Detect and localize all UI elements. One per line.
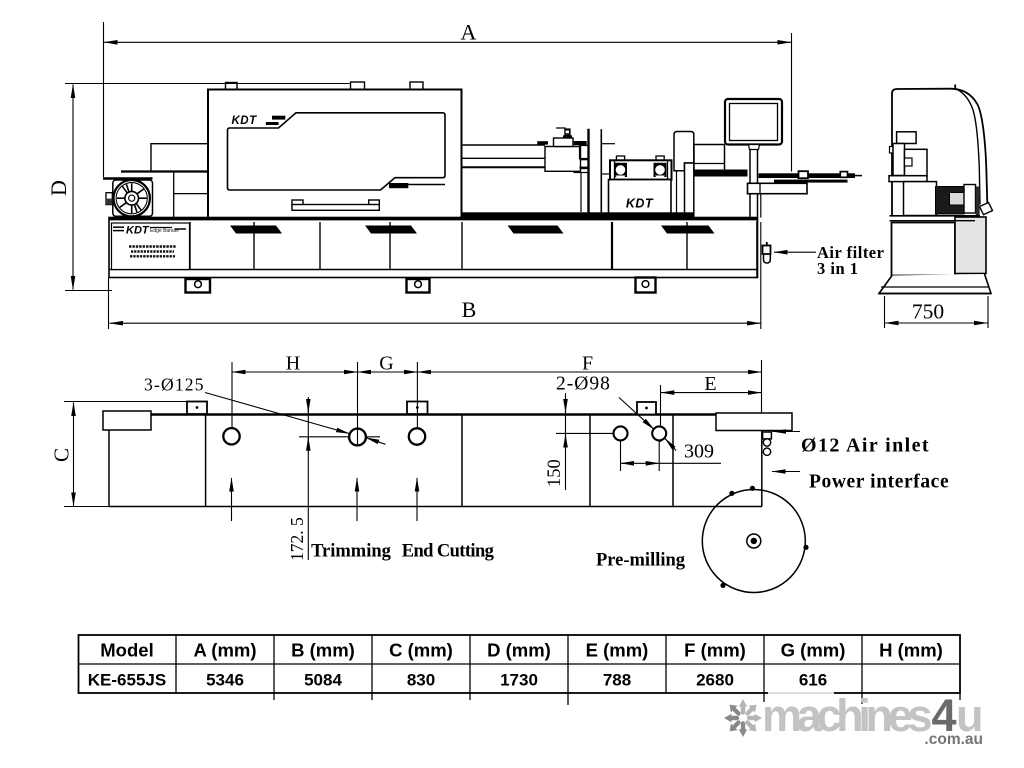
svg-text:D: D — [46, 180, 71, 196]
dimension F — [417, 362, 761, 446]
dimension H — [232, 362, 358, 446]
cover inner panel — [228, 113, 446, 190]
svg-text:Model: Model — [100, 640, 153, 661]
machine left wheel assembly — [103, 144, 208, 219]
dimension E — [661, 360, 762, 442]
plan hole circle 2 — [299, 429, 380, 446]
pre-milling disc — [702, 486, 808, 593]
tall post — [674, 132, 694, 218]
svg-text:KDT: KDT — [626, 197, 654, 211]
foot 1 — [186, 279, 211, 293]
foot 2 — [407, 279, 430, 293]
svg-text:machines: machines — [762, 690, 931, 741]
svg-text:Trimming: Trimming — [311, 542, 392, 562]
air filter symbol — [757, 221, 771, 278]
cover KDT logo — [232, 115, 286, 127]
end view base boxes — [879, 217, 991, 294]
svg-text:C (mm): C (mm) — [389, 640, 453, 661]
cabinet base — [109, 218, 758, 278]
svg-text:788: 788 — [603, 671, 631, 690]
trimming unit pedestal — [537, 128, 580, 171]
table small square 1 — [799, 171, 809, 178]
air filter leader arrow — [774, 251, 816, 253]
dimension B line — [109, 222, 761, 329]
plan hole circle 5 — [652, 426, 666, 440]
table band lower — [774, 180, 848, 183]
drawer handle 4 — [661, 226, 715, 234]
svg-text:A: A — [461, 20, 477, 45]
plan hole circle 3 — [409, 428, 425, 444]
end view machinery — [889, 132, 937, 216]
svg-text:616: 616 — [799, 671, 827, 690]
deck plate — [462, 212, 694, 217]
plan body — [103, 411, 762, 507]
svg-text:150: 150 — [545, 459, 565, 487]
svg-text:750: 750 — [912, 300, 944, 324]
svg-text:.com.au: .com.au — [924, 731, 983, 748]
side table box — [694, 145, 725, 172]
plan top square 2 — [407, 402, 428, 415]
cabinet KDT panel — [112, 223, 190, 270]
dimension A line — [104, 22, 792, 177]
svg-text:E: E — [704, 373, 716, 395]
svg-text:830: 830 — [407, 671, 435, 690]
svg-text:H (mm): H (mm) — [879, 640, 943, 661]
foot 3 — [636, 278, 656, 293]
table small square 2 — [840, 172, 847, 178]
end view body — [890, 85, 993, 216]
up arrow trimming 2 — [356, 478, 358, 521]
dimension 172.5 — [307, 397, 309, 560]
air inlet symbol — [763, 432, 772, 455]
dimension G — [358, 362, 418, 446]
svg-text:1730: 1730 — [500, 671, 538, 690]
power interface leader arrow — [772, 471, 800, 473]
drawer handle 1 — [230, 226, 282, 234]
svg-text:E (mm): E (mm) — [586, 640, 649, 661]
drawer handle 2 — [365, 226, 417, 234]
dimension 750 — [885, 296, 989, 328]
svg-text:2-Ø98: 2-Ø98 — [556, 374, 611, 395]
svg-text:KDT: KDT — [232, 115, 258, 127]
label 3-diam125 with leader — [144, 375, 386, 445]
svg-text:G (mm): G (mm) — [781, 640, 846, 661]
plan hole circle 4 — [556, 426, 628, 440]
right tower columns — [565, 129, 615, 219]
monitor — [725, 99, 782, 150]
svg-text:A (mm): A (mm) — [193, 640, 256, 661]
dimension D line — [65, 84, 350, 291]
svg-text:3 in 1: 3 in 1 — [817, 259, 859, 278]
svg-text:3-Ø125: 3-Ø125 — [144, 375, 205, 395]
cover handle — [292, 200, 379, 210]
roller bearing unit — [610, 156, 672, 180]
up arrow end cutting — [416, 478, 418, 521]
plan top square 3 — [637, 402, 656, 415]
wheel — [114, 180, 150, 216]
svg-text:B: B — [462, 297, 477, 322]
svg-text:F (mm): F (mm) — [684, 640, 746, 661]
table data row — [88, 671, 827, 690]
up arrow trimming 1 — [231, 478, 233, 521]
end view motor — [936, 185, 980, 216]
svg-text:D (mm): D (mm) — [487, 640, 551, 661]
dimension 150 — [565, 393, 567, 490]
plan right tab — [716, 413, 792, 431]
machine top cover — [208, 82, 462, 219]
svg-text:Pre-milling: Pre-milling — [596, 551, 686, 571]
svg-text:5346: 5346 — [206, 671, 244, 690]
watermark machines4u text — [762, 690, 984, 748]
air inlet leader arrow — [773, 431, 801, 433]
plan hole circle 1 — [223, 428, 239, 444]
svg-text:309: 309 — [684, 441, 714, 463]
svg-text:C: C — [50, 448, 74, 462]
svg-text:KDT: KDT — [126, 225, 150, 237]
dimension C — [64, 402, 187, 507]
svg-text:G: G — [379, 353, 393, 375]
table band tail — [855, 175, 862, 177]
svg-text:2680: 2680 — [696, 671, 734, 690]
drawer handle 3 — [508, 226, 564, 234]
svg-text:H: H — [286, 353, 300, 375]
watermark snowflake logo — [724, 699, 762, 737]
svg-text:Ø12 Air inlet: Ø12 Air inlet — [801, 435, 930, 457]
svg-text:F: F — [582, 353, 593, 375]
svg-text:Power interface: Power interface — [809, 472, 949, 493]
label 2-diam98 with leader — [556, 374, 676, 451]
watermark wash — [768, 689, 834, 695]
plan top square 1 — [187, 402, 207, 415]
conveyor beam lines — [462, 145, 546, 167]
table band right — [759, 173, 856, 178]
svg-text:B (mm): B (mm) — [291, 640, 355, 661]
table band left — [694, 170, 748, 177]
dimension 309 — [621, 441, 722, 471]
svg-text:172. 5: 172. 5 — [287, 517, 307, 561]
table header row — [100, 640, 943, 661]
support arm box — [748, 183, 808, 193]
KDT glue unit box — [609, 180, 672, 219]
svg-text:5084: 5084 — [304, 671, 342, 690]
monitor pole — [750, 150, 761, 218]
cover bottom dash — [389, 183, 445, 188]
svg-text:KE-655JS: KE-655JS — [88, 671, 166, 690]
svg-text:End Cutting: End Cutting — [402, 542, 495, 562]
